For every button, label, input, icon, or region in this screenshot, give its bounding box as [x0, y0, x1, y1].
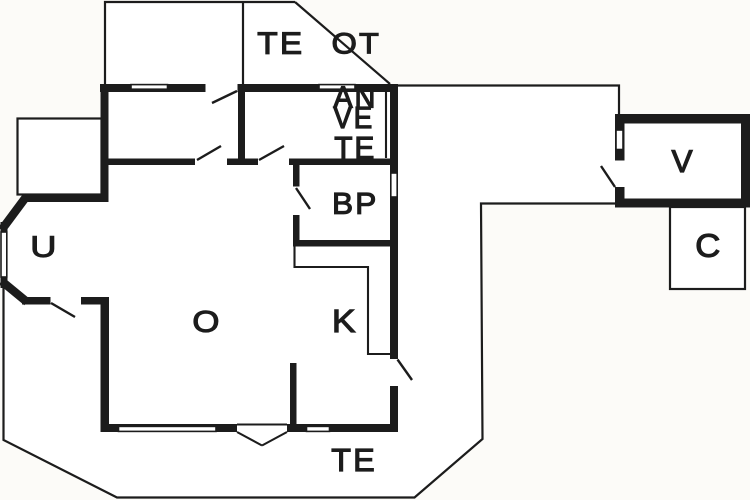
garage V walls: [615, 114, 750, 208]
door gap garage west wall: [615, 161, 626, 188]
corridor wall: [101, 159, 391, 166]
room label V: [672, 150, 693, 172]
bathroom BP west wall: [293, 165, 300, 240]
room U west wall: [1, 222, 8, 288]
door swing garage: [601, 166, 615, 187]
door gap BP wall: [293, 187, 301, 216]
path line to garage: [397, 86, 619, 115]
west wall lower: [101, 297, 110, 432]
room label OT: [333, 33, 378, 54]
room label AN: [334, 87, 374, 108]
room label VE: [334, 107, 372, 128]
window north wall left: [131, 85, 168, 90]
door swing east exterior: [398, 360, 413, 381]
kitchen stub wall: [290, 363, 297, 424]
door gap north wall: [206, 84, 238, 94]
door swing lines: [51, 91, 615, 380]
west wall upper: [101, 84, 109, 202]
bay window gap south wall: [237, 424, 287, 433]
house exterior walls: [1, 84, 399, 432]
room label TE entrance: [335, 137, 373, 159]
window garage west wall: [616, 130, 623, 150]
plot boundary right/bottom: [4, 204, 616, 498]
terrace divider line: [242, 2, 244, 84]
interior walls: [101, 92, 391, 424]
room U north wall: [22, 195, 109, 202]
windows (white with outline): [1, 85, 623, 432]
garage north wall: [615, 114, 750, 124]
room label TE south: [332, 449, 373, 471]
door swing north terrace door: [212, 91, 237, 103]
door openings (white gaps): [51, 84, 626, 433]
bay window inner line: [237, 423, 287, 425]
terrace diagonal edge: [295, 2, 390, 84]
door swing left bedroom: [197, 146, 221, 160]
door swing BP: [296, 188, 310, 209]
door gap corridor left: [195, 158, 227, 166]
door swing U exterior: [51, 303, 75, 317]
room label BP: [335, 193, 375, 214]
room label C: [697, 234, 719, 257]
thin interior lines: [237, 92, 390, 446]
bay window left pane: [237, 432, 262, 446]
room label O: [194, 311, 218, 332]
garage south wall: [615, 199, 750, 208]
door gap east wall: [390, 359, 399, 386]
storage C outline rect: [670, 207, 745, 289]
door gap U south wall: [51, 297, 82, 306]
room label U: [33, 236, 54, 257]
room U south wall: [22, 297, 109, 305]
garage west wall: [615, 114, 625, 208]
north wall: [100, 84, 398, 92]
south wall: [101, 424, 398, 432]
window east wall BP: [391, 173, 397, 197]
room U NW bevel wall: [2, 197, 27, 230]
window U west wall: [1, 232, 7, 277]
annex outline rect: [18, 119, 102, 195]
bathroom BP south wall: [293, 240, 390, 247]
kitchen counter outline: [295, 246, 391, 354]
room label K: [335, 310, 355, 332]
door gap corridor right: [258, 158, 289, 166]
door swing right bedroom: [259, 146, 284, 160]
window south wall left: [119, 426, 217, 431]
garage east wall: [741, 114, 750, 208]
east wall: [390, 84, 398, 432]
window south wall right: [307, 426, 330, 431]
entrance partition line: [385, 92, 387, 158]
window north wall right: [319, 85, 355, 90]
room U SW bevel wall: [2, 281, 28, 302]
bay window right pane: [262, 432, 287, 446]
room label TE terrace top: [258, 33, 301, 54]
bedroom divider wall: [238, 92, 245, 159]
